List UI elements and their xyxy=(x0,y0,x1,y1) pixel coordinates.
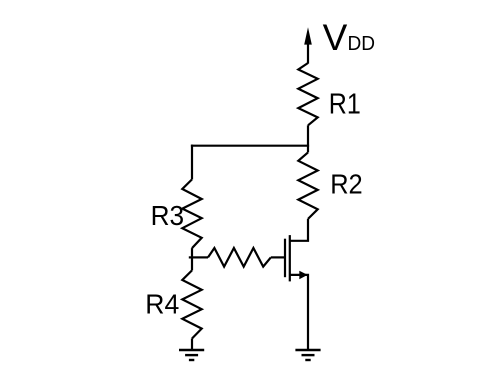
svg-text:R3: R3 xyxy=(151,200,185,231)
resistor R2 xyxy=(298,152,317,219)
wire gate lead xyxy=(271,256,285,258)
transistor M1 gate plate xyxy=(284,239,286,278)
svg-text:DD: DD xyxy=(348,33,376,55)
svg-text:R1: R1 xyxy=(329,88,361,120)
node junction tick xyxy=(189,256,192,258)
svg-text:R4: R4 xyxy=(145,288,179,319)
transistor M1 channel plate xyxy=(289,235,291,281)
resistor gate (horizontal) xyxy=(208,248,271,267)
resistor R3 xyxy=(182,179,201,248)
wire top horizontal from R3 branch to R1/R2 node xyxy=(191,145,309,147)
svg-text:R2: R2 xyxy=(330,168,363,199)
resistor R1 xyxy=(298,63,317,125)
resistor R4 xyxy=(182,270,201,338)
ground left xyxy=(179,350,204,360)
wire R2 top lead xyxy=(307,146,309,153)
wire R1 bottom lead to node xyxy=(307,125,309,145)
wire source lead to ground xyxy=(290,275,308,350)
wire node to gate resistor xyxy=(192,256,208,258)
label VDD xyxy=(323,17,375,58)
wire R4 bottom lead xyxy=(191,339,193,351)
wire R4 top lead xyxy=(191,257,193,270)
arrow source xyxy=(299,271,307,280)
power VDD arrow xyxy=(304,27,312,63)
svg-text:V: V xyxy=(323,17,348,58)
ground right xyxy=(295,350,320,360)
wire R3 top lead xyxy=(191,145,193,180)
wire R2 bottom to transistor drain xyxy=(290,219,308,241)
wire R3 bottom lead to node xyxy=(191,248,193,257)
